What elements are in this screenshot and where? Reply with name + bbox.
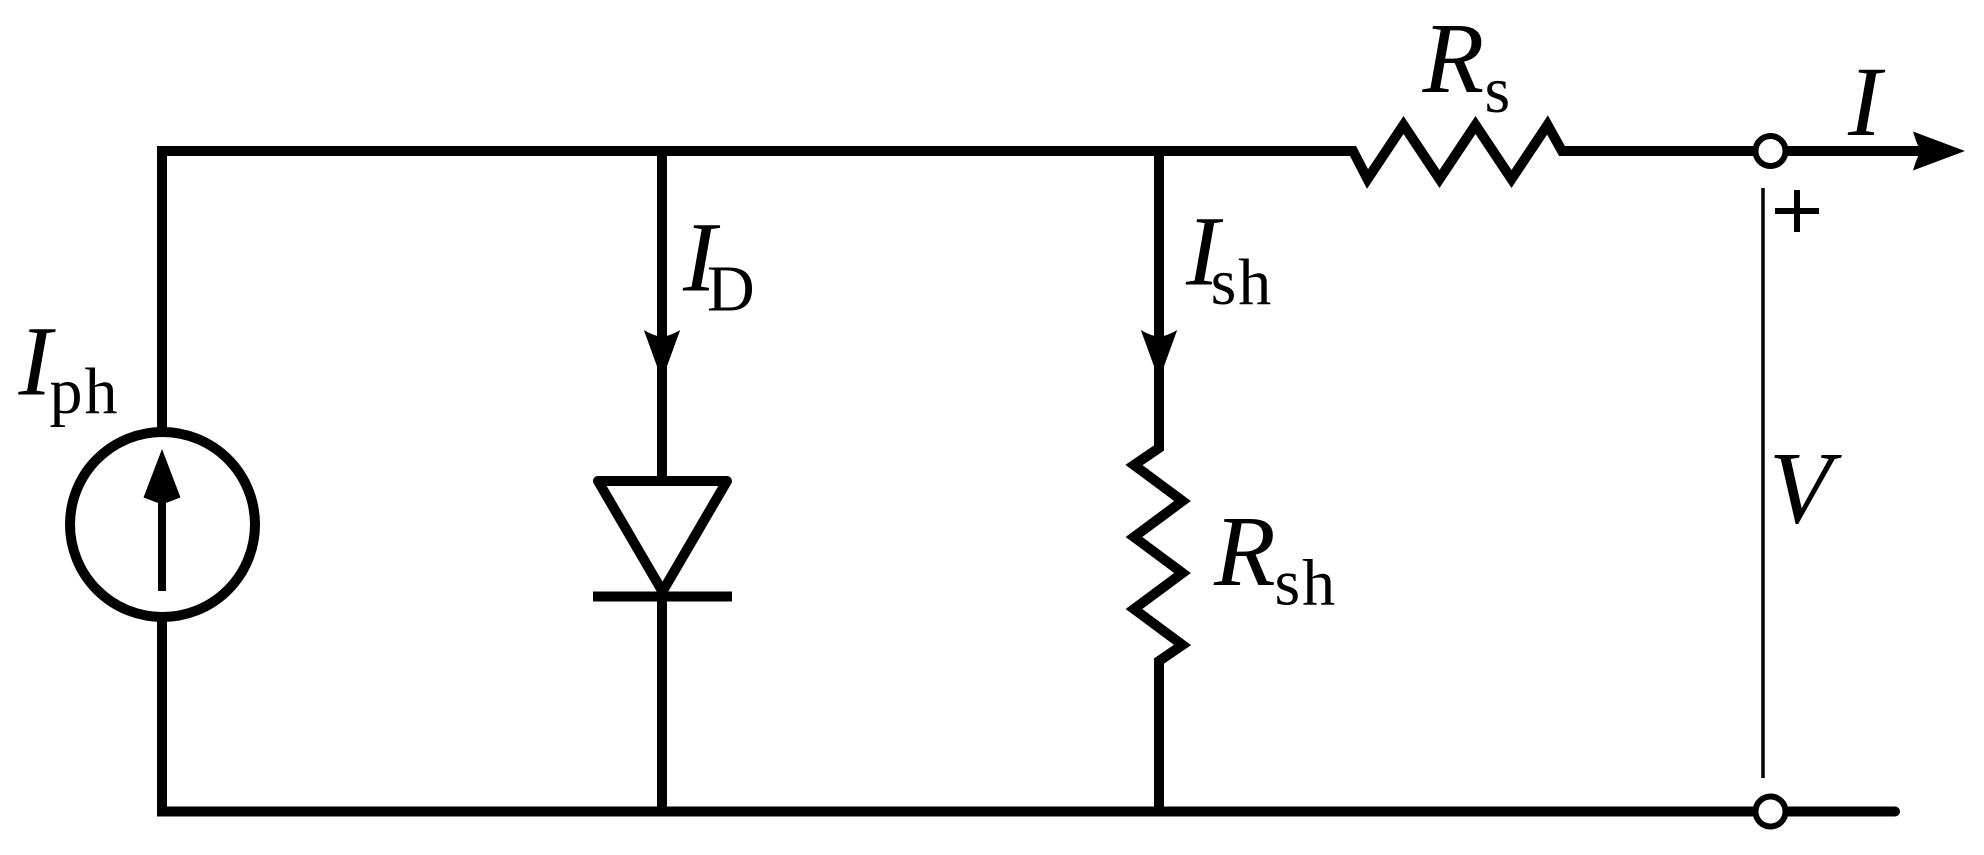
wire output top after terminal: [1785, 146, 1925, 156]
diode D: [593, 481, 732, 597]
current source Iph: [70, 432, 255, 617]
arrow current Ish: [1141, 330, 1177, 380]
svg-text:s: s: [1485, 54, 1511, 127]
wire diode branch upper: [657, 146, 667, 481]
wire bottom rail: [157, 807, 1760, 817]
svg-text:I: I: [1847, 46, 1886, 157]
plus sign: [1775, 190, 1819, 232]
wire diode branch lower: [657, 597, 667, 817]
svg-text:sh: sh: [1275, 547, 1338, 620]
wire top rail with resistor Rs: [157, 125, 1760, 179]
wire left rail upper: [157, 146, 167, 434]
label Ish: [1185, 195, 1273, 319]
label ID: [682, 202, 755, 326]
wire bottom rail right stub: [1788, 807, 1895, 817]
svg-text:R: R: [1213, 495, 1276, 607]
wire left rail lower: [157, 616, 167, 812]
arrow output current I: [1913, 132, 1965, 171]
svg-text:sh: sh: [1211, 246, 1274, 319]
label Iph: [18, 306, 120, 429]
terminal bottom: [1756, 797, 1786, 827]
wire shunt branch with resistor Rsh: [1134, 146, 1183, 817]
label Rsh: [1213, 495, 1337, 620]
terminal top: [1756, 136, 1786, 166]
label Rs: [1422, 2, 1511, 127]
svg-text:ph: ph: [50, 355, 120, 428]
arrow current ID: [644, 330, 680, 380]
svg-text:R: R: [1422, 2, 1485, 114]
svg-text:D: D: [707, 252, 755, 325]
svg-text:V: V: [1769, 432, 1842, 546]
voltage measurement line: [1761, 188, 1765, 778]
